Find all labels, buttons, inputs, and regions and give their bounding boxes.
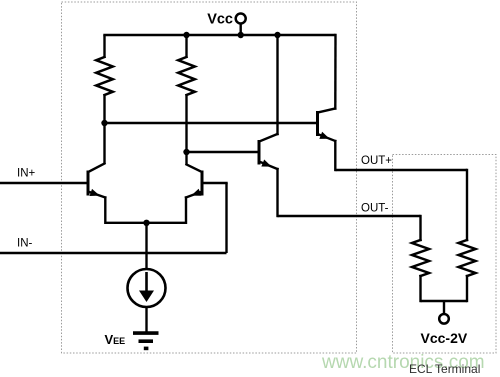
- wire Q2 collector riser: [185, 152, 187, 164]
- wire Q2 base stub: [202, 182, 227, 184]
- label IN+: [17, 168, 36, 180]
- wire IN- riser to Q2 base: [225, 183, 227, 253]
- main circuit boundary (dashed box): [62, 2, 357, 353]
- node: R2 top junction: [183, 32, 189, 38]
- svg-text:OUT+: OUT+: [361, 155, 392, 167]
- label VEE: [105, 332, 126, 347]
- svg-text:IN-: IN-: [17, 238, 33, 250]
- svg-text:Vcc-2V: Vcc-2V: [421, 330, 468, 346]
- label Vcc-2V: [421, 330, 468, 346]
- wire Q2 emitter down-leg: [185, 198, 187, 223]
- node: R2 / Q2 collector / Q3 base junction: [183, 149, 189, 155]
- watermark www.cntronics.com: [321, 352, 485, 373]
- node: R1 / rail junction: [101, 120, 107, 126]
- node: Vcc terminal junction: [238, 32, 244, 38]
- wire Q2 emitter to common node: [147, 222, 187, 224]
- ECL terminal network boundary (dashed box): [393, 155, 497, 354]
- wire R4 bottom lead: [466, 276, 468, 301]
- wire R2 top lead: [185, 35, 187, 57]
- label OUT-: [361, 203, 389, 215]
- resistor R4 body (OUT+ termination): [459, 240, 476, 276]
- transistor Q2 (diff pair right, NPN mirrored): [186, 165, 202, 198]
- transistor Q3 (OUT- emitter follower, NPN): [259, 134, 278, 169]
- resistor R1 body: [96, 57, 113, 95]
- wire Q3 collector riser: [276, 35, 278, 134]
- svg-text:OUT-: OUT-: [361, 203, 389, 215]
- label IN-: [17, 238, 33, 250]
- resistor R3 body (OUT- termination): [412, 240, 429, 276]
- Vcc terminal (open circle): [236, 14, 246, 36]
- wire R1 bottom lead / Q1 collector riser: [103, 95, 105, 164]
- wire Vcc top rail: [103, 34, 335, 36]
- resistor R2 body: [178, 57, 195, 95]
- wire Q4 collector riser: [334, 35, 337, 109]
- wire common node to current source: [145, 223, 147, 269]
- wire R1-output to Q4 base rail: [105, 122, 318, 124]
- wire OUT- drop to R3: [419, 216, 421, 240]
- wire Q1 emitter down-leg: [104, 198, 106, 223]
- label OUT+: [361, 155, 392, 167]
- wire Q4 emitter down-leg: [334, 141, 336, 170]
- svg-text:IN+: IN+: [17, 168, 36, 180]
- current source I1 (circle with down arrow): [128, 269, 166, 307]
- transistor Q4 (OUT+ emitter follower, NPN): [318, 109, 336, 142]
- wire Q3 base from R2 node: [187, 151, 260, 153]
- node: Q3 collector top junction: [274, 32, 280, 38]
- wire IN-: [0, 252, 227, 254]
- wire OUT-: [278, 215, 421, 217]
- wire IN+ to Q1 base: [0, 182, 88, 184]
- node: common emitter junction: [143, 220, 149, 226]
- Vcc-2V terminal (open circle): [439, 301, 449, 324]
- wire OUT+: [336, 169, 468, 171]
- svg-text:Vcc: Vcc: [207, 11, 233, 27]
- wire Q1 emitter to common node: [105, 222, 146, 224]
- ground symbol (VEE): [133, 333, 159, 350]
- wire current source to ground: [145, 307, 147, 332]
- wire termination bottom rail: [421, 300, 468, 302]
- svg-text:VEE: VEE: [105, 332, 126, 347]
- wire R2 bottom lead (crosses base rail): [185, 95, 187, 152]
- label Vcc: [207, 11, 233, 27]
- transistor Q1 (diff pair left, NPN): [88, 164, 105, 198]
- wire R3 bottom lead: [419, 276, 421, 301]
- svg-text:ECL Terminal: ECL Terminal: [409, 362, 480, 376]
- label ECL Terminal: [409, 362, 480, 376]
- wire R1 top lead: [103, 35, 105, 57]
- wire Q3 emitter down-leg: [276, 169, 278, 216]
- wire OUT+ drop to R4: [466, 170, 468, 240]
